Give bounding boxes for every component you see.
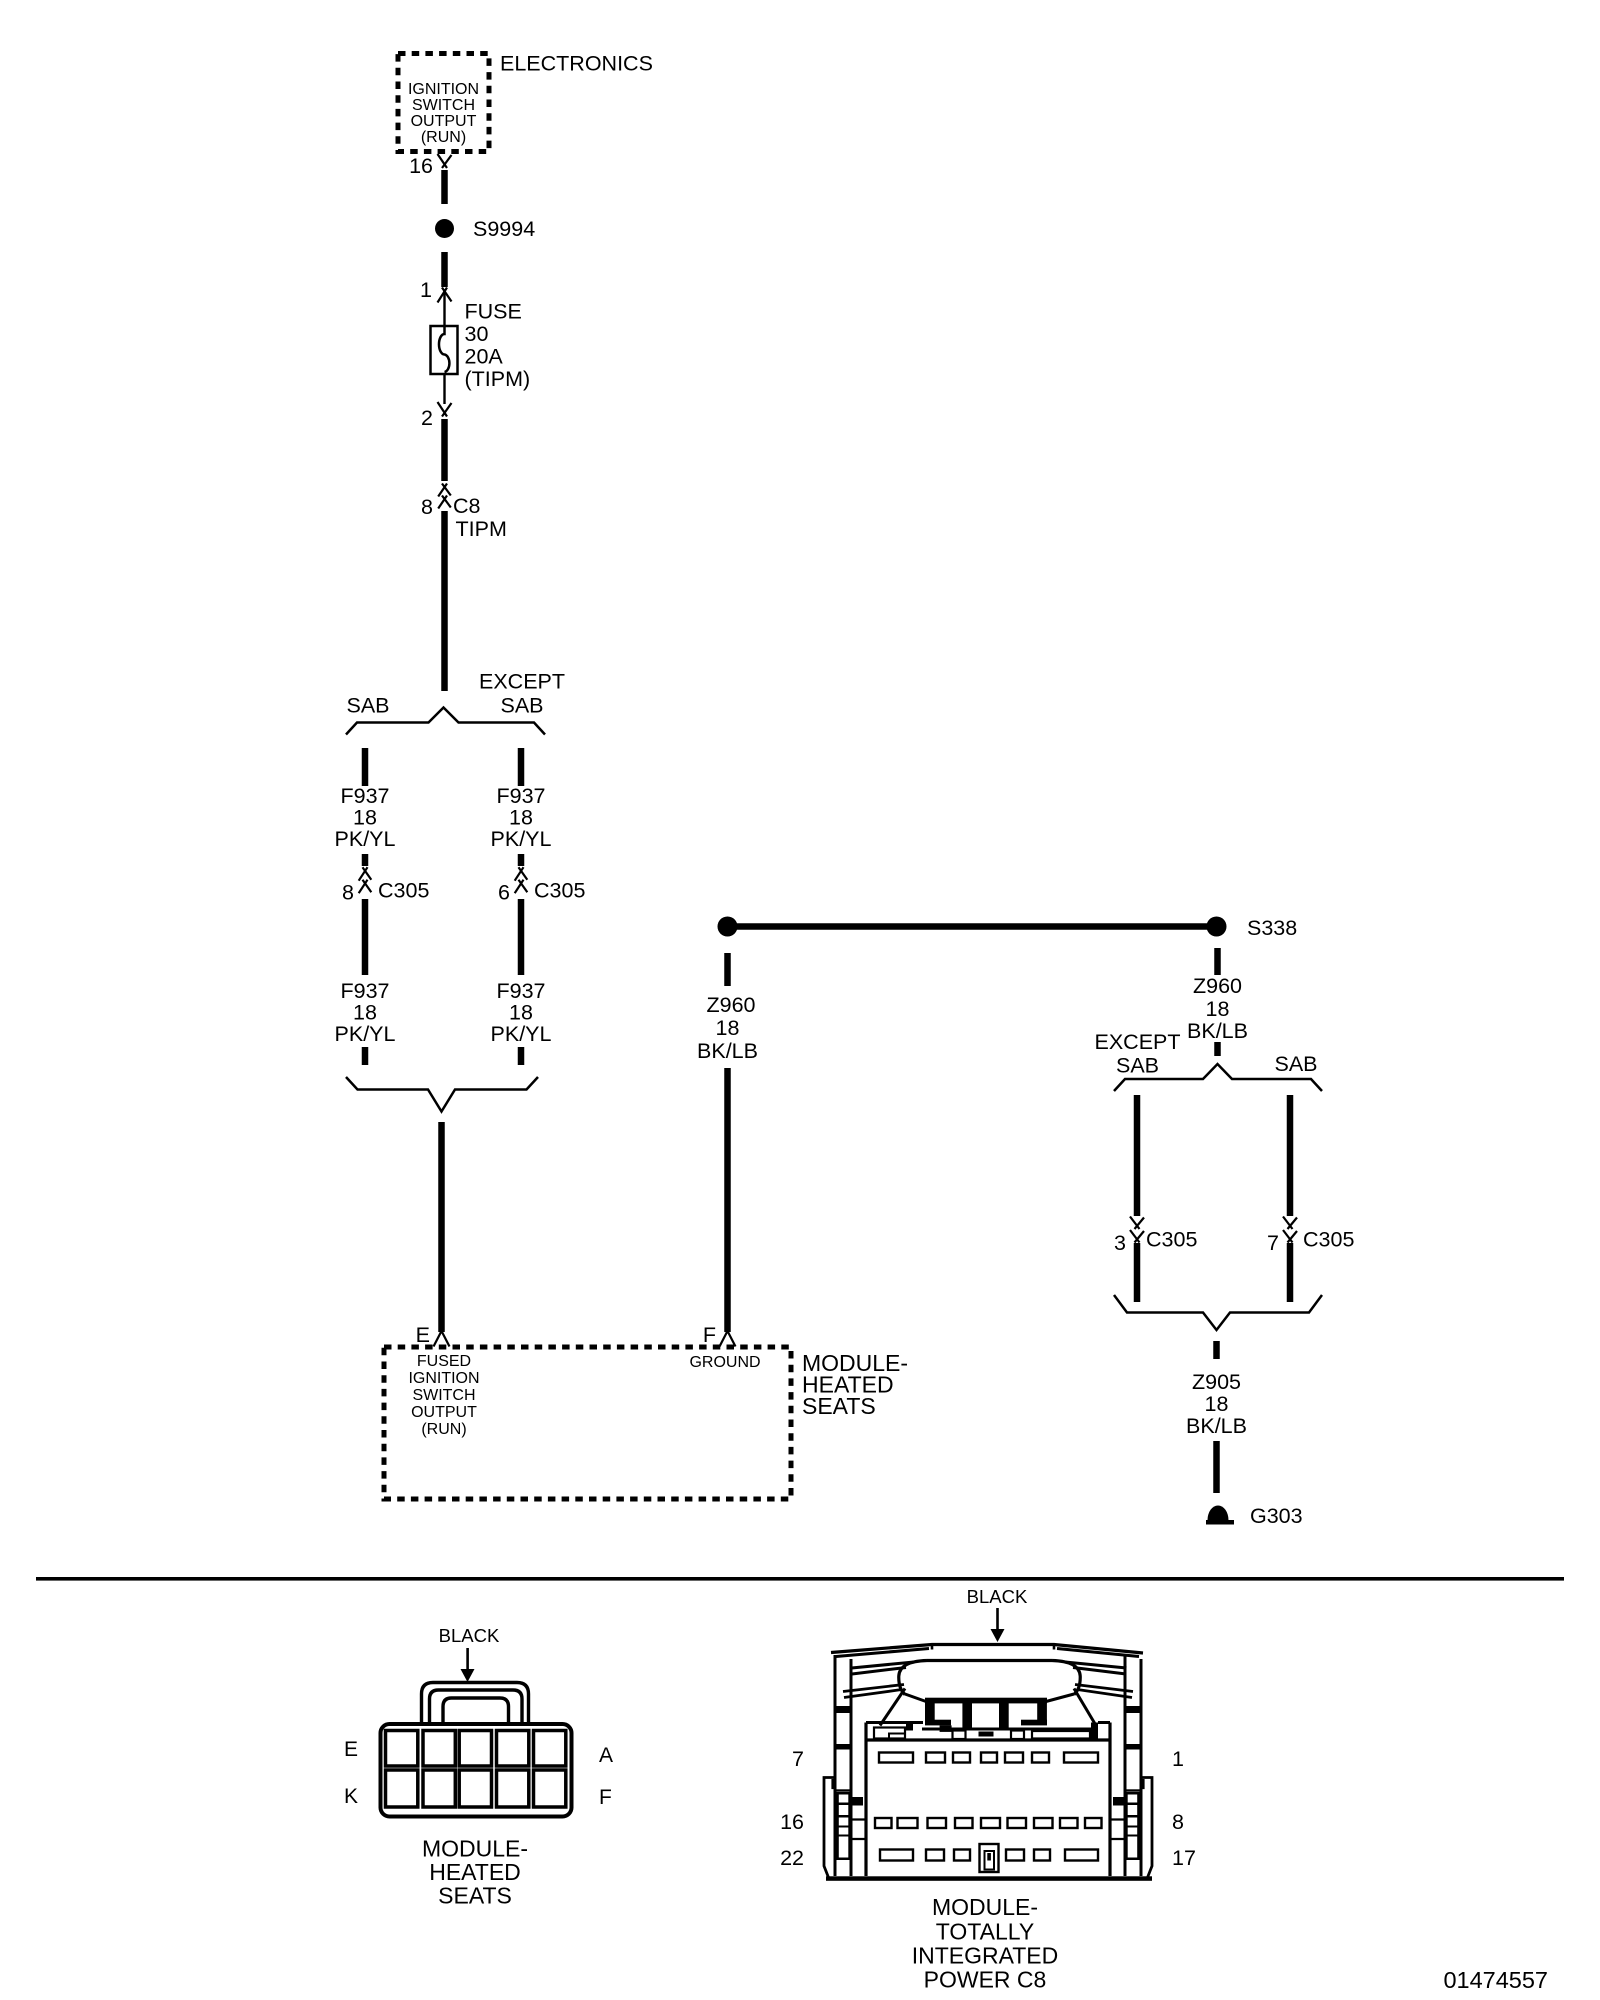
svg-text:SAB: SAB bbox=[347, 694, 390, 718]
svg-text:EXCEPT: EXCEPT bbox=[479, 670, 565, 694]
svg-text:F937: F937 bbox=[496, 784, 545, 808]
svg-text:INTEGRATED: INTEGRATED bbox=[912, 1943, 1059, 1969]
svg-text:SEATS: SEATS bbox=[438, 1883, 512, 1909]
svg-text:BK/LB: BK/LB bbox=[1187, 1019, 1248, 1043]
svg-text:TIPM: TIPM bbox=[456, 517, 507, 541]
svg-text:BLACK: BLACK bbox=[967, 1586, 1028, 1607]
svg-text:MODULE-: MODULE- bbox=[932, 1894, 1038, 1920]
svg-text:PK/YL: PK/YL bbox=[335, 1022, 396, 1046]
svg-text:8: 8 bbox=[421, 495, 433, 519]
svg-text:HEATED: HEATED bbox=[429, 1859, 521, 1885]
svg-text:C305: C305 bbox=[534, 879, 585, 903]
svg-text:Z960: Z960 bbox=[706, 993, 755, 1017]
svg-text:01474557: 01474557 bbox=[1443, 1967, 1548, 1993]
svg-text:C305: C305 bbox=[1146, 1228, 1197, 1252]
svg-text:TOTALLY: TOTALLY bbox=[936, 1919, 1034, 1945]
svg-text:S338: S338 bbox=[1247, 916, 1297, 940]
svg-text:18: 18 bbox=[353, 806, 377, 830]
svg-text:8: 8 bbox=[1172, 1810, 1184, 1834]
svg-text:3: 3 bbox=[1114, 1231, 1126, 1255]
svg-text:ELECTRONICS: ELECTRONICS bbox=[500, 52, 653, 76]
svg-text:6: 6 bbox=[498, 881, 510, 905]
svg-text:(TIPM): (TIPM) bbox=[465, 367, 531, 391]
svg-text:18: 18 bbox=[353, 1001, 377, 1025]
svg-text:C305: C305 bbox=[1303, 1228, 1354, 1252]
svg-text:22: 22 bbox=[780, 1846, 804, 1870]
svg-text:F937: F937 bbox=[496, 979, 545, 1003]
svg-text:MODULE-: MODULE- bbox=[422, 1836, 528, 1862]
svg-text:BK/LB: BK/LB bbox=[697, 1039, 758, 1063]
svg-text:2: 2 bbox=[421, 406, 433, 430]
svg-text:7: 7 bbox=[1267, 1231, 1279, 1255]
svg-text:BK/LB: BK/LB bbox=[1186, 1414, 1247, 1438]
svg-text:18: 18 bbox=[1206, 997, 1230, 1021]
svg-text:OUTPUT: OUTPUT bbox=[411, 113, 477, 130]
svg-text:16: 16 bbox=[780, 1810, 804, 1834]
svg-text:F: F bbox=[599, 1786, 612, 1809]
svg-text:A: A bbox=[599, 1744, 613, 1767]
svg-text:(RUN): (RUN) bbox=[421, 1421, 466, 1438]
svg-text:SWITCH: SWITCH bbox=[412, 1387, 475, 1404]
svg-text:C8: C8 bbox=[453, 494, 481, 518]
svg-text:7: 7 bbox=[792, 1747, 804, 1771]
svg-text:16: 16 bbox=[409, 154, 433, 178]
svg-text:FUSED: FUSED bbox=[417, 1353, 471, 1370]
svg-text:1: 1 bbox=[1172, 1747, 1184, 1771]
svg-text:C305: C305 bbox=[378, 879, 429, 903]
svg-text:E: E bbox=[416, 1323, 430, 1347]
svg-text:S9994: S9994 bbox=[473, 217, 535, 241]
svg-text:(RUN): (RUN) bbox=[421, 129, 466, 146]
svg-text:SAB: SAB bbox=[1116, 1054, 1159, 1078]
svg-text:F: F bbox=[703, 1323, 716, 1347]
svg-text:G303: G303 bbox=[1250, 1504, 1303, 1528]
svg-text:18: 18 bbox=[509, 1001, 533, 1025]
svg-text:PK/YL: PK/YL bbox=[335, 827, 396, 851]
svg-text:FUSE: FUSE bbox=[465, 300, 522, 324]
svg-text:E: E bbox=[344, 1738, 358, 1761]
svg-text:IGNITION: IGNITION bbox=[408, 1370, 479, 1387]
svg-text:17: 17 bbox=[1172, 1846, 1196, 1870]
svg-text:SWITCH: SWITCH bbox=[412, 97, 475, 114]
svg-text:20A: 20A bbox=[465, 345, 504, 369]
svg-text:18: 18 bbox=[509, 806, 533, 830]
svg-text:Z960: Z960 bbox=[1193, 974, 1242, 998]
svg-text:GROUND: GROUND bbox=[689, 1354, 760, 1371]
svg-text:F937: F937 bbox=[340, 979, 389, 1003]
svg-text:30: 30 bbox=[465, 322, 489, 346]
svg-text:K: K bbox=[344, 1785, 358, 1808]
svg-text:SAB: SAB bbox=[500, 694, 543, 718]
svg-text:IGNITION: IGNITION bbox=[408, 81, 479, 98]
svg-text:PK/YL: PK/YL bbox=[491, 1022, 552, 1046]
svg-text:POWER C8: POWER C8 bbox=[924, 1967, 1047, 1993]
svg-text:EXCEPT: EXCEPT bbox=[1094, 1030, 1180, 1054]
svg-text:8: 8 bbox=[342, 881, 354, 905]
svg-text:F937: F937 bbox=[340, 784, 389, 808]
svg-text:1: 1 bbox=[420, 278, 432, 302]
svg-text:BLACK: BLACK bbox=[439, 1625, 500, 1646]
svg-text:OUTPUT: OUTPUT bbox=[411, 1404, 477, 1421]
svg-text:18: 18 bbox=[716, 1016, 740, 1040]
svg-text:SAB: SAB bbox=[1274, 1052, 1317, 1076]
svg-text:Z905: Z905 bbox=[1192, 1370, 1241, 1394]
svg-text:SEATS: SEATS bbox=[802, 1393, 876, 1419]
svg-text:18: 18 bbox=[1205, 1392, 1229, 1416]
svg-text:PK/YL: PK/YL bbox=[491, 827, 552, 851]
